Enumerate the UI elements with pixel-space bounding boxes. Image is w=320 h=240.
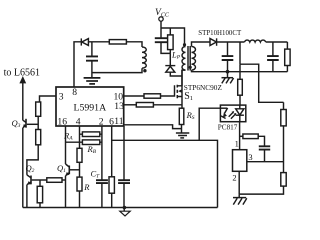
svg-text:LP: LP — [171, 50, 181, 61]
svg-text:CT: CT — [91, 169, 101, 180]
svg-text:2: 2 — [99, 117, 104, 128]
svg-text:VCC: VCC — [155, 8, 170, 18]
svg-text:to L6561: to L6561 — [4, 68, 40, 79]
svg-text:RB: RB — [87, 144, 97, 155]
svg-text:PC817: PC817 — [218, 124, 238, 132]
svg-text:STP10H100CT: STP10H100CT — [198, 30, 242, 37]
svg-text:11: 11 — [114, 116, 123, 127]
svg-text:RS: RS — [186, 110, 195, 121]
svg-text:Q2: Q2 — [26, 163, 35, 174]
svg-text:16: 16 — [57, 117, 67, 128]
svg-text:4: 4 — [76, 117, 81, 128]
svg-text:R: R — [83, 182, 90, 192]
svg-text:S1: S1 — [184, 91, 193, 102]
svg-text:3: 3 — [59, 91, 64, 102]
svg-text:Q1: Q1 — [57, 163, 66, 174]
svg-text:1: 1 — [235, 138, 239, 148]
svg-text:8: 8 — [72, 87, 77, 98]
svg-text:L5991A: L5991A — [74, 102, 107, 113]
svg-text:RA: RA — [63, 130, 73, 141]
svg-text:3: 3 — [248, 152, 252, 162]
svg-text:13: 13 — [114, 101, 124, 112]
svg-text:2: 2 — [232, 172, 236, 182]
svg-text:Q3: Q3 — [12, 118, 21, 129]
